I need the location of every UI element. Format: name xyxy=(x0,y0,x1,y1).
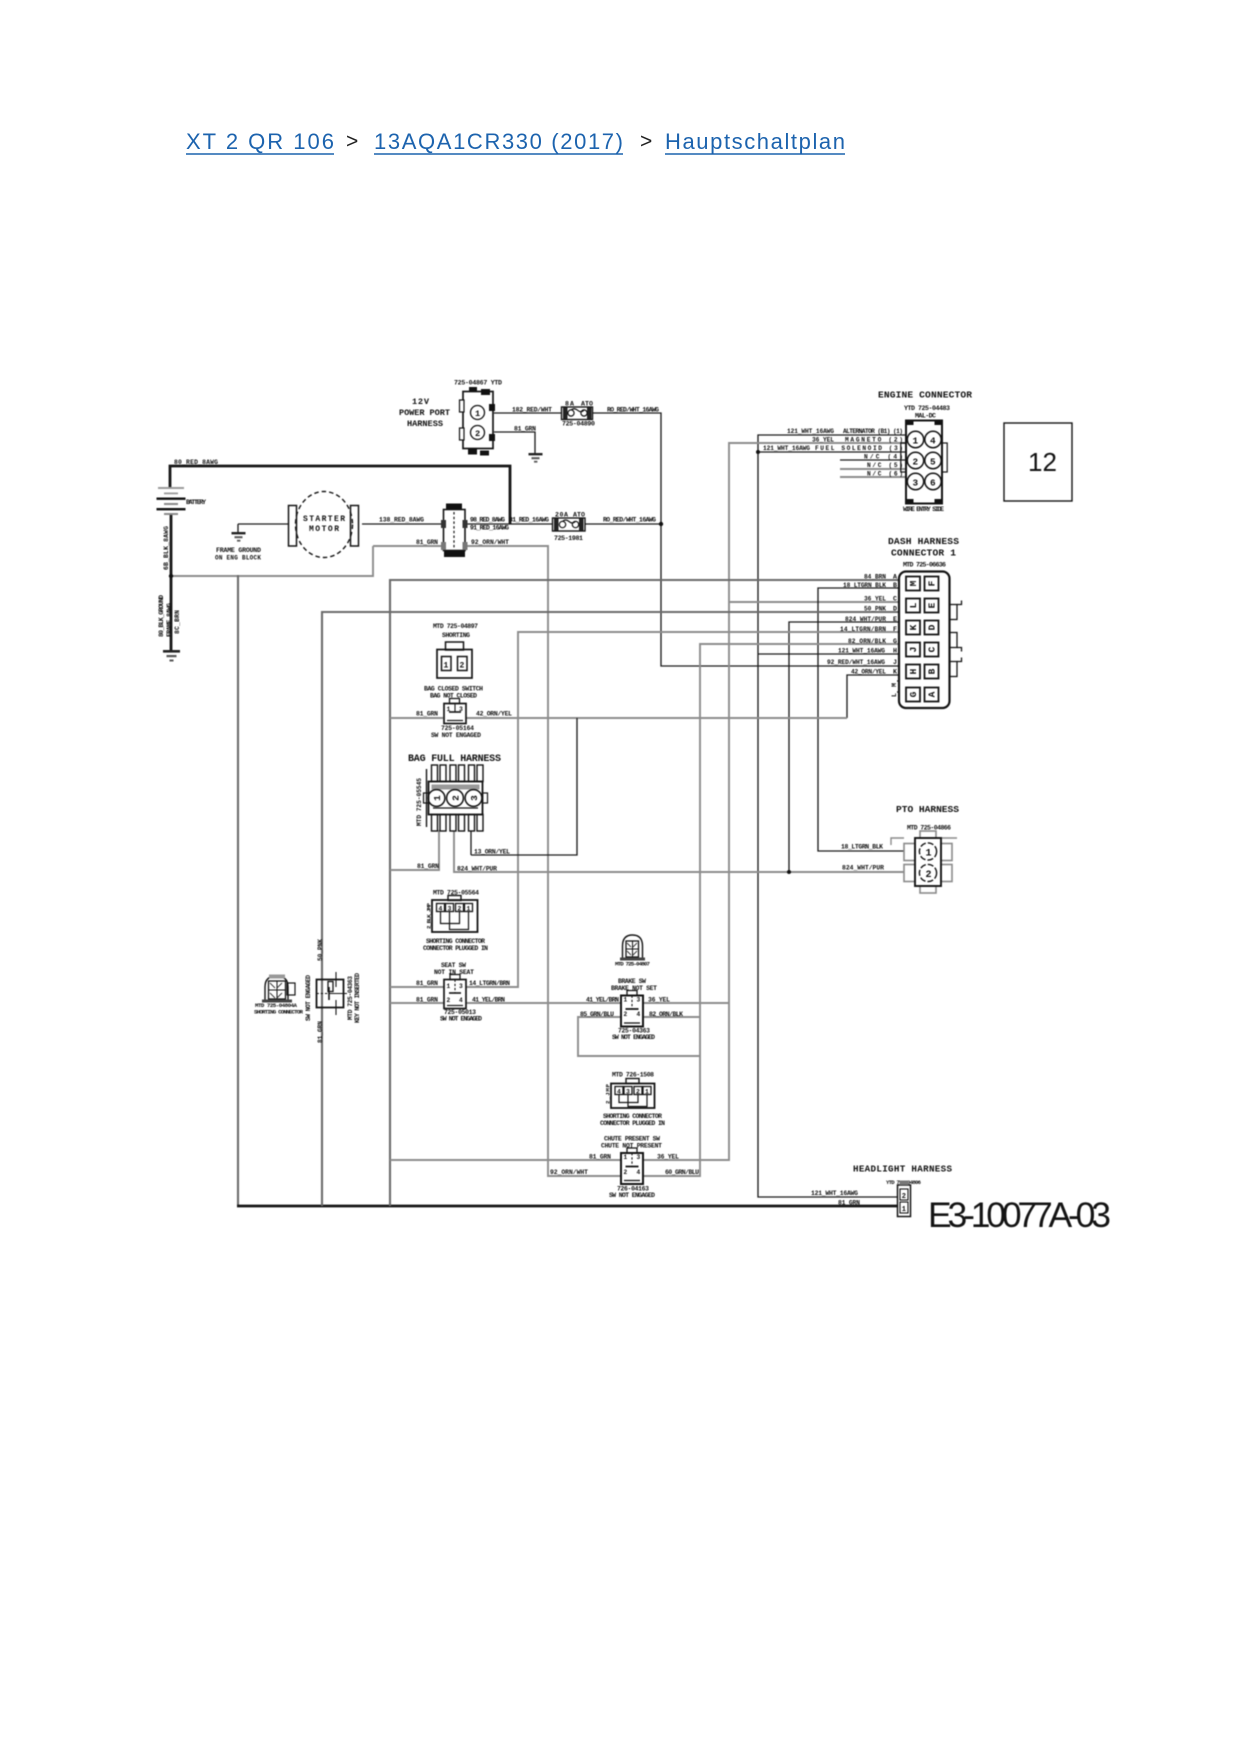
wire power port 81_GRN to ground xyxy=(494,432,535,449)
svg-text:M: M xyxy=(908,580,919,586)
svg-text:B: B xyxy=(893,582,897,589)
junction node 824 row xyxy=(787,870,791,874)
svg-text:6B_BLK_8AWG: 6B_BLK_8AWG xyxy=(163,526,170,570)
svg-text:SHORTING: SHORTING xyxy=(442,632,470,639)
svg-text:E: E xyxy=(927,602,938,608)
svg-text:121_WHT_16AWG: 121_WHT_16AWG xyxy=(838,648,885,655)
svg-text:RO_RED/WHT_16AWG: RO_RED/WHT_16AWG xyxy=(603,517,656,524)
connector PTO harness 725-04866 xyxy=(891,804,959,893)
svg-text:MTD 725-04363: MTD 725-04363 xyxy=(347,976,354,1020)
svg-text:MTD 726-1508: MTD 726-1508 xyxy=(612,1072,654,1079)
svg-text:SW NOT ENGAGED: SW NOT ENGAGED xyxy=(440,1016,482,1023)
svg-text:HEADLIGHT HARNESS: HEADLIGHT HARNESS xyxy=(853,1164,952,1175)
connector shorting 725-04897 xyxy=(433,623,478,678)
svg-text:F: F xyxy=(893,626,897,633)
svg-text:80_RED_8AWG: 80_RED_8AWG xyxy=(174,459,218,466)
svg-text:SEAT SW: SEAT SW xyxy=(441,962,466,969)
svg-text:1: 1 xyxy=(444,662,449,671)
svg-text:J: J xyxy=(893,659,897,666)
svg-text:D: D xyxy=(927,624,938,630)
wire power port 182_RED/WHT + RO_RED/WHT_16AWG to dash J xyxy=(494,413,899,666)
svg-text:1: 1 xyxy=(902,1206,906,1214)
wire dash row D 50_PNK down x322 xyxy=(322,612,899,1206)
svg-text:MTD 725-06636: MTD 725-06636 xyxy=(903,562,946,569)
svg-text:2: 2 xyxy=(458,906,462,913)
fuse F1 8A ATO xyxy=(562,401,596,428)
svg-text:A: A xyxy=(893,574,897,581)
svg-text:18_LTGRN_BLK: 18_LTGRN_BLK xyxy=(843,582,886,589)
switch brake xyxy=(580,978,683,1041)
svg-text:WIRE ENTRY SIDE: WIRE ENTRY SIDE xyxy=(903,506,944,513)
dash row wire labels xyxy=(827,574,897,676)
svg-text:>: > xyxy=(346,130,358,153)
switch reverse caution (rotated) xyxy=(305,939,361,1043)
svg-text:824_WHT/PUR: 824_WHT/PUR xyxy=(842,865,884,872)
battery ground rotated labels xyxy=(158,595,181,637)
svg-text:MTD 725-05545: MTD 725-05545 xyxy=(416,778,423,826)
svg-text:J: J xyxy=(908,647,919,653)
svg-text:SW NOT ENGAGED: SW NOT ENGAGED xyxy=(612,1034,655,1041)
svg-text:POWER PORT: POWER PORT xyxy=(399,408,450,418)
svg-text:ON ENG BLOCK: ON ENG BLOCK xyxy=(215,555,261,562)
svg-text:50_PNK: 50_PNK xyxy=(317,939,324,961)
svg-text:4: 4 xyxy=(637,1169,641,1176)
svg-text:STARTER: STARTER xyxy=(303,515,345,524)
svg-text:G: G xyxy=(893,638,897,645)
wire 13_ORN/YEL bag full pin3 xyxy=(471,718,577,855)
svg-text:1: 1 xyxy=(467,906,471,913)
svg-text:2: 2 xyxy=(902,1193,906,1201)
svg-text:3: 3 xyxy=(637,1154,641,1161)
svg-text:1: 1 xyxy=(624,1154,628,1161)
connector shorting dome (left) xyxy=(254,975,304,1016)
svg-text:H: H xyxy=(893,648,897,655)
box sheet number 12 xyxy=(1004,423,1072,501)
svg-text:1: 1 xyxy=(447,706,451,713)
svg-text:2: 2 xyxy=(624,1169,628,1176)
wire dash row B 18_LTGRN_BLK to PTO 1 xyxy=(818,588,907,851)
svg-text:81_RED_16AWG: 81_RED_16AWG xyxy=(509,517,549,524)
ground power port xyxy=(529,449,543,463)
svg-text:SHORTING CONNECTOR: SHORTING CONNECTOR xyxy=(254,1009,304,1016)
BREADCRUMB xyxy=(186,129,845,154)
wire engine alternator 121_WHT_16AWG down to dash H and headlight xyxy=(758,435,906,1197)
svg-text:41_YEL/BRN: 41_YEL/BRN xyxy=(472,997,505,1004)
svg-text:F: F xyxy=(927,580,938,586)
wire 824_WHT/PUR bag full pin2 to PTO 2 xyxy=(454,830,905,872)
svg-text:K: K xyxy=(908,624,919,630)
svg-text:E3-10077A-03: E3-10077A-03 xyxy=(928,1195,1111,1235)
switch bag closed xyxy=(416,686,512,740)
svg-text:13AQA1CR330 (2017): 13AQA1CR330 (2017) xyxy=(374,129,623,154)
svg-text:YTD 725-04483: YTD 725-04483 xyxy=(904,405,950,412)
svg-text:SW NOT ENGAGED: SW NOT ENGAGED xyxy=(431,732,481,739)
svg-text:MOTOR: MOTOR xyxy=(309,525,339,534)
connector headlight harness 725-04806 xyxy=(811,1164,952,1217)
wire battery riser xyxy=(170,514,173,650)
junction node fuel solenoid xyxy=(756,450,760,454)
svg-text:3: 3 xyxy=(626,1089,630,1096)
svg-text:81_GRN: 81_GRN xyxy=(416,997,438,1004)
svg-text:B: B xyxy=(927,668,938,674)
junction node battery bus xyxy=(169,574,173,578)
svg-text:8C_BRN: 8C_BRN xyxy=(174,610,181,634)
top area wire labels xyxy=(174,407,659,547)
svg-text:42_ORN/YEL: 42_ORN/YEL xyxy=(851,669,886,676)
svg-text:3: 3 xyxy=(469,795,480,801)
connector J1 12V power port 725-04867 xyxy=(454,380,502,456)
wire bottom trunk 81_GRN y1206 xyxy=(237,1205,897,1208)
svg-text:3: 3 xyxy=(459,706,463,713)
wire dash row A 84_BRN green bus x390 xyxy=(390,580,899,1206)
svg-text:H: H xyxy=(908,668,919,674)
svg-text:MTD 725-04897: MTD 725-04897 xyxy=(433,623,478,630)
svg-text:DASH HARNESS: DASH HARNESS xyxy=(888,536,959,547)
svg-text:L: L xyxy=(908,602,919,608)
starter motor M1 xyxy=(289,492,359,558)
connector engine 725-04483 xyxy=(878,390,972,514)
svg-text:2: 2 xyxy=(451,795,462,801)
svg-text:85_GRN/BLU: 85_GRN/BLU xyxy=(580,1011,614,1018)
svg-text:4: 4 xyxy=(459,997,463,1004)
wire dash row F 14_LTGRN/BRN to seat xyxy=(466,632,899,987)
svg-text:PTO HARNESS: PTO HARNESS xyxy=(896,804,959,815)
svg-text:81_GRN: 81_GRN xyxy=(838,1200,860,1207)
svg-text:41_YEL/BRN: 41_YEL/BRN xyxy=(586,997,619,1004)
svg-text:81_GRN: 81_GRN xyxy=(416,980,438,987)
svg-text:3: 3 xyxy=(637,997,641,1004)
svg-text:3: 3 xyxy=(459,983,463,990)
svg-text:1: 1 xyxy=(645,1089,649,1096)
svg-text:81_GRN: 81_GRN xyxy=(416,711,438,718)
wire battery negative gray bus y576 xyxy=(171,546,443,577)
label E3-10077A-03 xyxy=(928,1195,1111,1235)
svg-text:121_WHT_16AWG: 121_WHT_16AWG xyxy=(763,445,810,452)
svg-text:4: 4 xyxy=(930,436,936,447)
svg-text:CONNECTOR 1: CONNECTOR 1 xyxy=(891,548,956,559)
svg-text:CONNECTOR PLUGGED IN: CONNECTOR PLUGGED IN xyxy=(423,945,488,952)
svg-text:2: 2 xyxy=(460,662,465,671)
wire engine magneto 36_YEL down to dash C brake chute xyxy=(643,443,906,1160)
svg-text:182_RED/WHT: 182_RED/WHT xyxy=(512,407,552,414)
svg-text:C: C xyxy=(893,596,897,603)
svg-text:BAG FULL HARNESS: BAG FULL HARNESS xyxy=(408,754,501,765)
dash pin M L stubs xyxy=(891,681,899,697)
svg-text:80_BLK_GROUND: 80_BLK_GROUND xyxy=(158,595,165,637)
svg-text:36_YEL: 36_YEL xyxy=(812,437,834,444)
svg-text:98_RED_8AWG: 98_RED_8AWG xyxy=(470,517,505,524)
svg-text:FUEL SOLENOID (3): FUEL SOLENOID (3) xyxy=(815,445,903,452)
ground battery xyxy=(163,650,180,662)
connector bag full harness 725-05545 xyxy=(408,754,501,831)
fuse F2 20A ATO xyxy=(553,512,586,543)
svg-text:SHORTING CONNECTOR: SHORTING CONNECTOR xyxy=(603,1113,662,1120)
svg-text:L: L xyxy=(891,693,898,697)
wire dash row K 42_ORN/YEL to bag closed switch xyxy=(390,675,899,718)
svg-text:13_ORN/YEL: 13_ORN/YEL xyxy=(474,849,510,856)
junction node starter feed xyxy=(659,522,663,526)
wire starter row 98_RED_8AWG xyxy=(362,523,661,525)
svg-text:42_ORN/YEL: 42_ORN/YEL xyxy=(476,711,512,718)
svg-text:2: 2 xyxy=(926,870,932,881)
svg-text:81_GRN: 81_GRN xyxy=(416,539,438,546)
svg-text:82_ORN/BLK: 82_ORN/BLK xyxy=(649,1011,683,1018)
svg-text:SW NOT ENGAGED: SW NOT ENGAGED xyxy=(305,975,312,1021)
svg-text:81_GRN: 81_GRN xyxy=(514,426,536,433)
wire 92_ORN/WHT key switch to chute xyxy=(466,546,620,1176)
key connector 725-04019 xyxy=(441,504,468,558)
svg-text:1: 1 xyxy=(475,409,480,419)
svg-text:81_GRN: 81_GRN xyxy=(417,863,439,870)
svg-text:CHUTE PRESENT SW: CHUTE PRESENT SW xyxy=(604,1136,660,1143)
connector shorting chute 726-1508 xyxy=(600,1072,665,1128)
svg-text:C: C xyxy=(927,646,938,652)
svg-text:M: M xyxy=(891,683,898,687)
wire 81_GRN bag full pin1 xyxy=(390,830,439,870)
wire trunk vertical x238 xyxy=(237,575,239,1206)
bag full wire labels xyxy=(417,844,884,873)
battery cable rotated label 6B_BLK_8AWG xyxy=(163,526,170,570)
svg-text:14_LTGRN/BRN: 14_LTGRN/BRN xyxy=(469,980,510,987)
svg-text:92_ORN/WHT: 92_ORN/WHT xyxy=(550,1169,588,1176)
svg-text:138_RED_8AWG: 138_RED_8AWG xyxy=(379,517,424,524)
wire seat switch rows 81_GRN xyxy=(390,987,444,1003)
svg-text:725-04867 YTD: 725-04867 YTD xyxy=(454,380,502,387)
svg-text:MAGNETO (2): MAGNETO (2) xyxy=(845,437,903,444)
wire dash row G 82_ORN/BLK to brake/chute xyxy=(643,644,899,1176)
wire dash row E 824_WHT/PUR xyxy=(789,622,899,872)
svg-text:BAG CLOSED SWITCH: BAG CLOSED SWITCH xyxy=(424,686,483,693)
svg-text:1: 1 xyxy=(926,849,932,860)
svg-text:XT 2 QR 106: XT 2 QR 106 xyxy=(186,129,334,154)
svg-text:>: > xyxy=(640,130,652,153)
svg-text:2: 2 xyxy=(636,1089,640,1096)
svg-text:BATTERY: BATTERY xyxy=(186,499,206,506)
svg-text:6: 6 xyxy=(930,478,936,489)
svg-text:92_ORN/WHT: 92_ORN/WHT xyxy=(471,539,509,546)
svg-text:5: 5 xyxy=(930,457,936,468)
wire starter to frame ground xyxy=(238,524,289,532)
svg-text:824_WHT/PUR: 824_WHT/PUR xyxy=(845,616,886,623)
svg-text:4: 4 xyxy=(439,906,443,913)
svg-text:81_GRN: 81_GRN xyxy=(317,1021,324,1043)
svg-text:50_PNK: 50_PNK xyxy=(864,606,886,613)
svg-text:G: G xyxy=(908,691,919,697)
svg-text:4: 4 xyxy=(637,1011,641,1018)
svg-text:725-1981: 725-1981 xyxy=(554,535,583,542)
svg-text:N/C (6): N/C (6) xyxy=(867,471,903,478)
connector brake sw cap 725-04807 xyxy=(615,935,651,968)
svg-text:12: 12 xyxy=(1028,447,1057,477)
svg-text:2: 2 xyxy=(475,429,480,439)
svg-text:ALTERNATOR (B1) (1): ALTERNATOR (B1) (1) xyxy=(843,428,903,435)
svg-text:E: E xyxy=(893,616,897,623)
svg-text:D: D xyxy=(893,606,897,613)
svg-text:60_GRN/BLU: 60_GRN/BLU xyxy=(665,1169,699,1176)
svg-text:12V: 12V xyxy=(412,397,430,407)
svg-text:MTD 725-04807: MTD 725-04807 xyxy=(615,961,651,968)
wire 80_RED_8AWG battery to starter feed xyxy=(170,466,510,524)
svg-text:121_WHT_16AWG: 121_WHT_16AWG xyxy=(787,428,834,435)
svg-text:82_ORN/BLK: 82_ORN/BLK xyxy=(848,638,886,645)
svg-text:FRAME GROUND: FRAME GROUND xyxy=(216,547,261,554)
svg-text:84_BRN: 84_BRN xyxy=(864,574,886,581)
svg-text:36_YEL: 36_YEL xyxy=(648,997,670,1004)
svg-text:2_BLK_JMP: 2_BLK_JMP xyxy=(426,902,433,929)
svg-text:2: 2 xyxy=(447,997,451,1004)
svg-text:HARNESS: HARNESS xyxy=(407,419,443,429)
switch chute present xyxy=(550,1136,699,1200)
svg-text:4: 4 xyxy=(617,1089,621,1096)
svg-text:2: 2 xyxy=(913,457,919,468)
svg-text:1: 1 xyxy=(432,795,443,801)
wire 41_YEL/BRN seat to brake xyxy=(466,1002,621,1004)
svg-text:BRAKE SW: BRAKE SW xyxy=(618,978,646,985)
wire 85_GRN/BLU brake loop xyxy=(578,1017,700,1056)
svg-text:SHORTING CONNECTOR: SHORTING CONNECTOR xyxy=(426,938,485,945)
svg-text:Hauptschaltplan: Hauptschaltplan xyxy=(665,129,845,154)
svg-text:36_YEL: 36_YEL xyxy=(657,1154,679,1161)
svg-text:RO_RED/WHT_16AWG: RO_RED/WHT_16AWG xyxy=(607,407,659,414)
svg-text:N/C (5): N/C (5) xyxy=(867,462,903,469)
wire engine N/C stubs xyxy=(840,460,906,477)
svg-text:3: 3 xyxy=(913,478,919,489)
dash cells letters xyxy=(906,577,939,702)
svg-text:2: 2 xyxy=(624,1011,628,1018)
connector shorting seat 725-05564 xyxy=(423,890,488,953)
svg-text:FRAME_8AWG: FRAME_8AWG xyxy=(166,603,173,637)
svg-text:824_WHT/PUR: 824_WHT/PUR xyxy=(457,866,497,873)
svg-text:36_YEL: 36_YEL xyxy=(864,596,886,603)
label 12V POWER PORT HARNESS xyxy=(399,397,450,429)
svg-text:A: A xyxy=(927,691,938,697)
battery BT1 xyxy=(157,487,207,515)
svg-text:ENGINE CONNECTOR: ENGINE CONNECTOR xyxy=(878,390,972,401)
svg-text:KEY NOT INSERTED: KEY NOT INSERTED xyxy=(354,973,361,1023)
ground frame xyxy=(215,532,261,562)
connector dash harness connector 1 (725-06636) xyxy=(888,536,962,708)
svg-text:91_RED_16AWG: 91_RED_16AWG xyxy=(470,525,509,532)
svg-text:1: 1 xyxy=(913,436,919,447)
switch seat xyxy=(416,962,510,1023)
svg-text:725-05164: 725-05164 xyxy=(441,725,474,732)
svg-text:1: 1 xyxy=(624,997,628,1004)
svg-text:CONNECTOR PLUGGED IN: CONNECTOR PLUGGED IN xyxy=(600,1120,665,1127)
svg-text:18_LTGRN_BLK: 18_LTGRN_BLK xyxy=(841,844,883,851)
svg-text:SW NOT ENGAGED: SW NOT ENGAGED xyxy=(609,1192,655,1199)
svg-text:K: K xyxy=(893,669,897,676)
svg-text:3: 3 xyxy=(448,906,452,913)
engine connector wire labels xyxy=(763,428,903,478)
svg-text:2_JMP: 2_JMP xyxy=(605,1083,612,1104)
svg-text:MAL-DC: MAL-DC xyxy=(915,413,936,420)
svg-text:92_RED/WHT_16AWG: 92_RED/WHT_16AWG xyxy=(827,659,885,666)
svg-text:121_WHT_16AWG: 121_WHT_16AWG xyxy=(811,1190,858,1197)
wire 81_GRN chute top left xyxy=(390,1159,621,1161)
svg-text:1: 1 xyxy=(447,983,451,990)
svg-text:14_LTGRN/BRN: 14_LTGRN/BRN xyxy=(840,626,886,633)
svg-text:725-04890: 725-04890 xyxy=(562,421,595,428)
svg-text:81_GRN: 81_GRN xyxy=(589,1154,611,1161)
